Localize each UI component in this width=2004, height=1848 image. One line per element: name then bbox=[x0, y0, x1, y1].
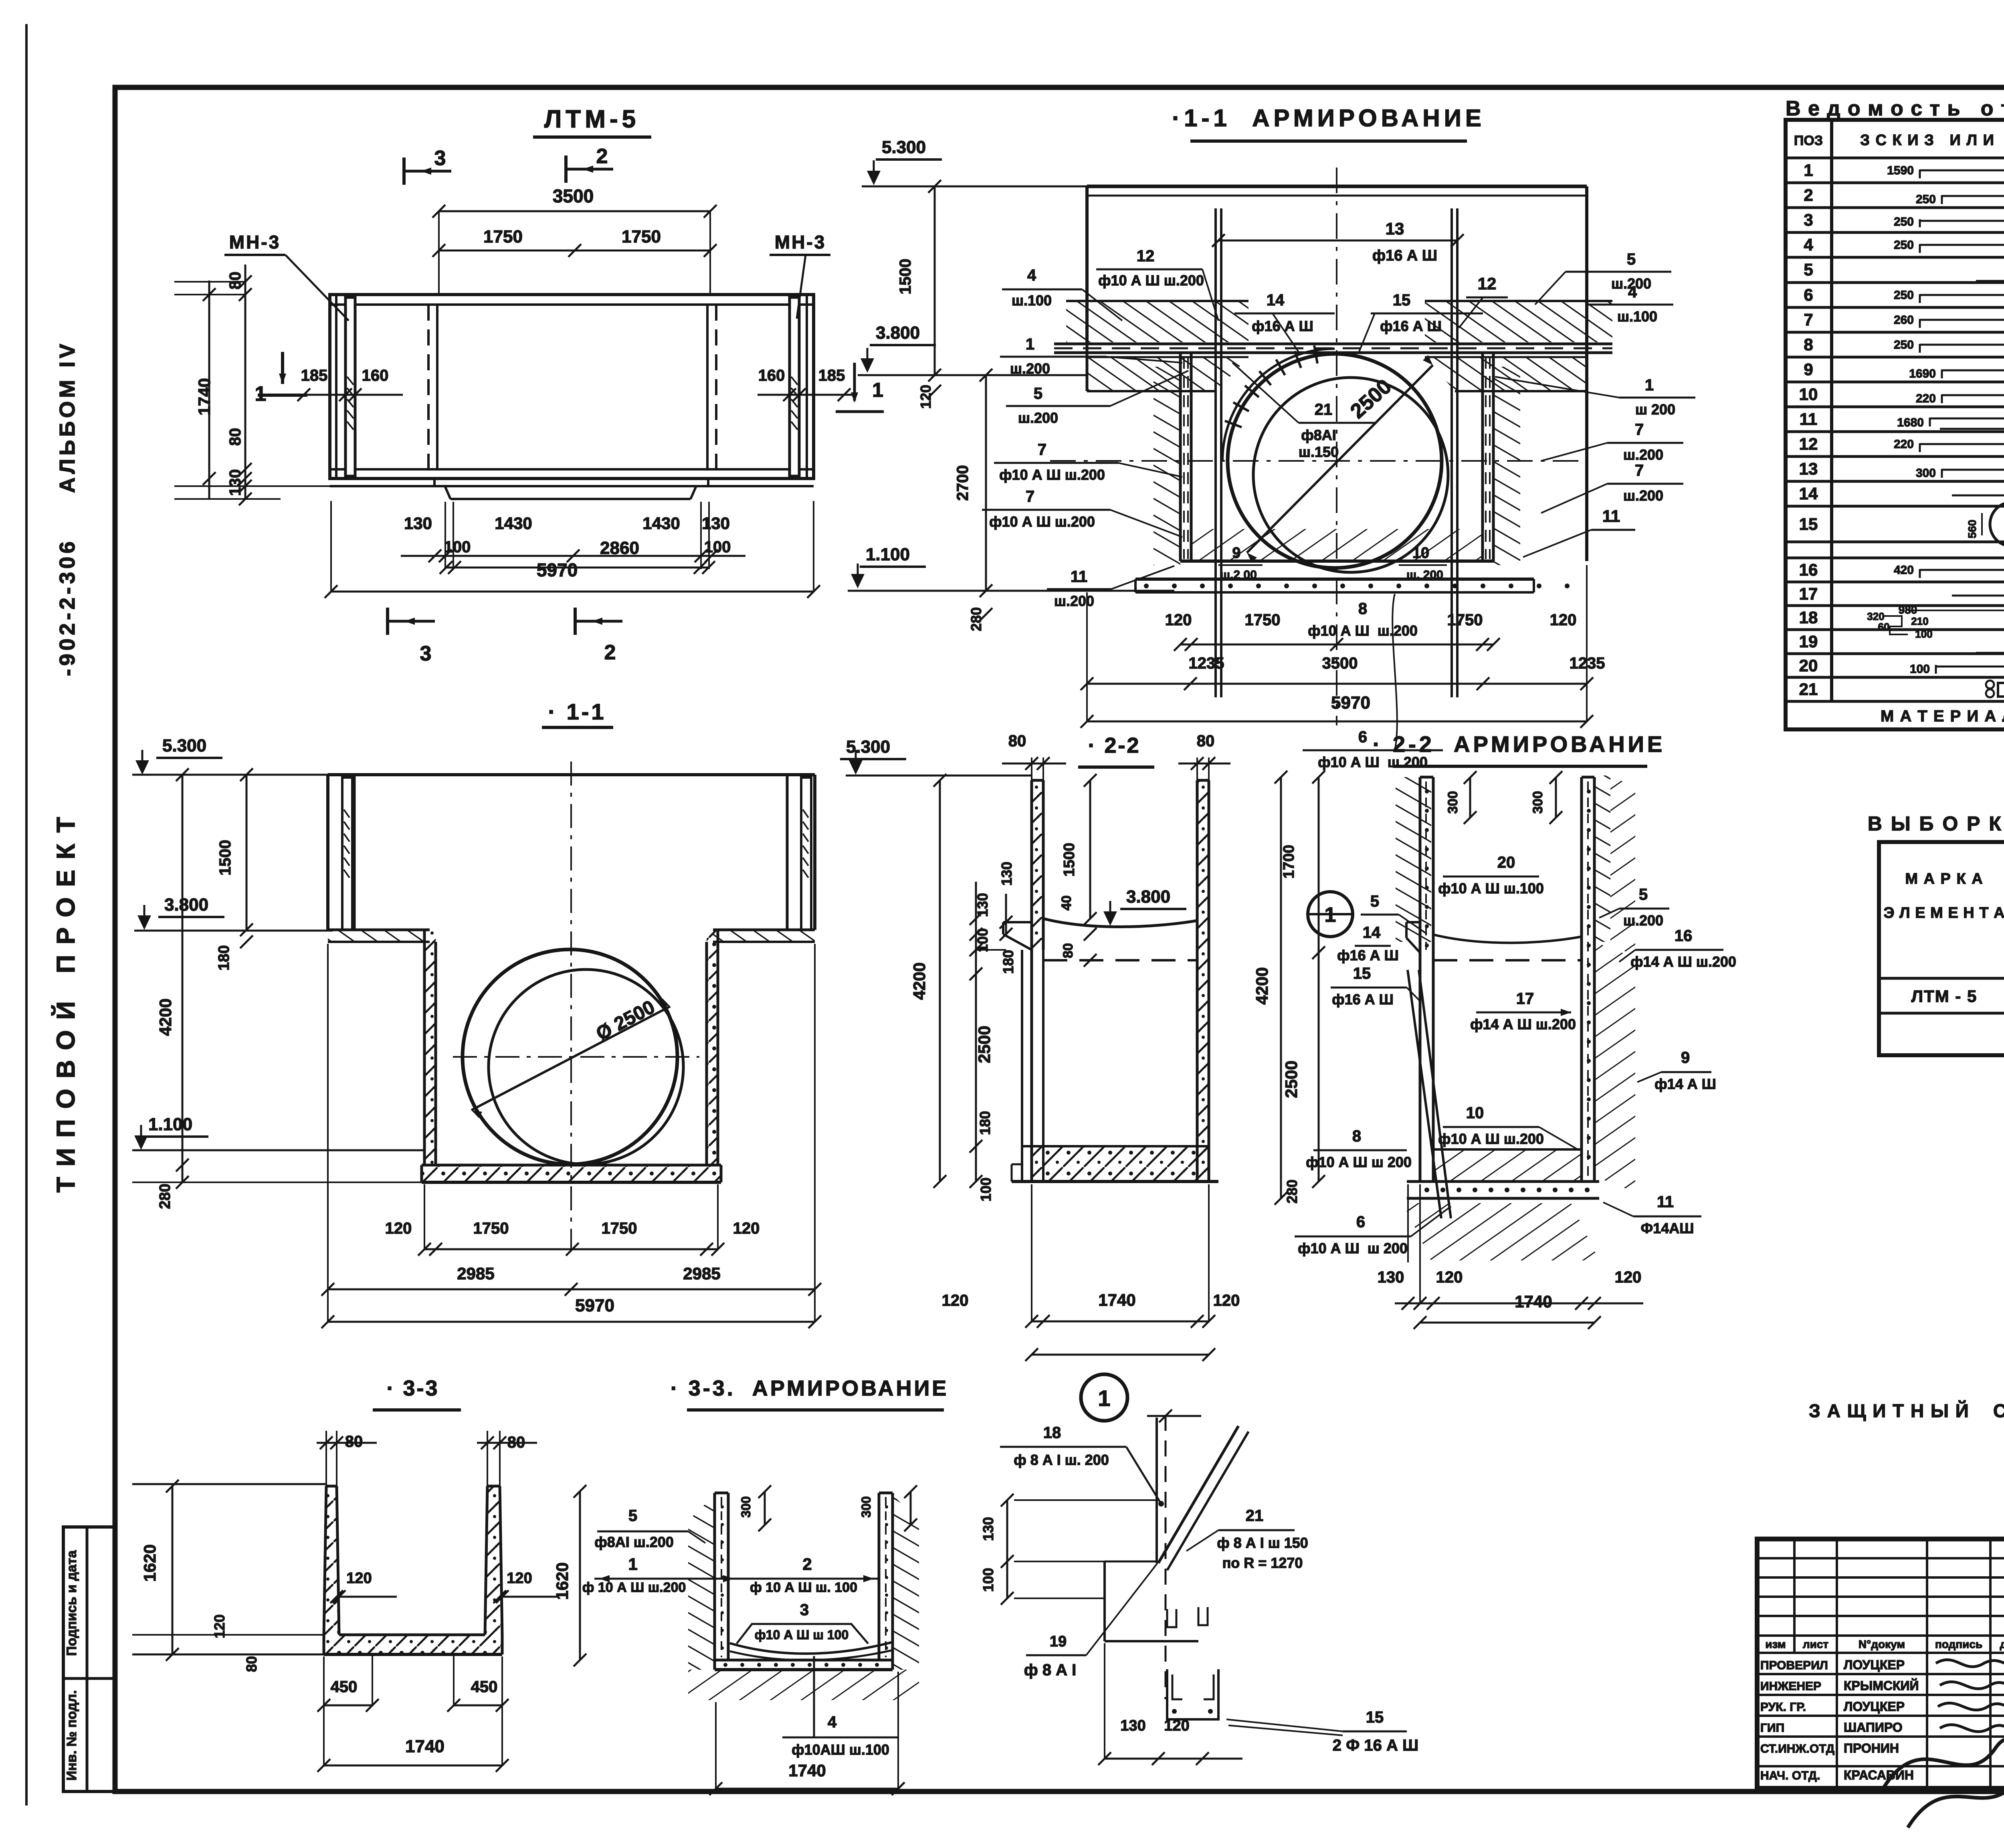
svg-text:Э Л Е М Е Н Т А: Э Л Е М Е Н Т А bbox=[1883, 905, 2004, 921]
svg-text:21: 21 bbox=[1315, 401, 1333, 418]
svg-text:40: 40 bbox=[1059, 895, 1074, 911]
svg-text:300: 300 bbox=[1445, 791, 1461, 814]
svg-text:ш.200: ш.200 bbox=[1623, 912, 1663, 929]
svg-text:120: 120 bbox=[1550, 611, 1577, 629]
svg-text:10: 10 bbox=[1412, 545, 1429, 561]
svg-text:1: 1 bbox=[1645, 376, 1654, 394]
svg-text:2500: 2500 bbox=[1282, 1060, 1301, 1098]
svg-text:2700: 2700 bbox=[954, 465, 972, 501]
svg-text:1: 1 bbox=[872, 379, 883, 401]
svg-text:120: 120 bbox=[917, 385, 934, 409]
svg-text:17: 17 bbox=[1799, 584, 1818, 603]
svg-text:7: 7 bbox=[1026, 488, 1034, 505]
svg-text:16: 16 bbox=[1799, 560, 1818, 579]
svg-text:ПРОВЕРИЛ: ПРОВЕРИЛ bbox=[1760, 1659, 1828, 1672]
svg-text:В е д о м о с т ь о т д е л: В е д о м о с т ь о т д е л ь н ы х с т … bbox=[1786, 97, 2004, 120]
svg-text:8: 8 bbox=[1804, 335, 1813, 354]
svg-text:СТ.ИНЖ.ОТД: СТ.ИНЖ.ОТД bbox=[1760, 1742, 1834, 1755]
svg-text:250: 250 bbox=[1916, 193, 1936, 206]
svg-text:4200: 4200 bbox=[910, 962, 929, 1000]
svg-text:Ф14АШ: Ф14АШ bbox=[1641, 1220, 1694, 1236]
svg-text:250: 250 bbox=[1894, 289, 1914, 302]
svg-text:ЛТМ-5: ЛТМ-5 bbox=[544, 105, 640, 133]
svg-text:ТИПОВОЙ ПРОЕКТ: ТИПОВОЙ ПРОЕКТ bbox=[51, 806, 80, 1192]
svg-text:М А Т Е Р И А Л Ы :: М А Т Е Р И А Л Ы : bbox=[1881, 707, 2004, 725]
svg-text:ф14 А Ш ш.200: ф14 А Ш ш.200 bbox=[1470, 1016, 1576, 1032]
svg-text:1750: 1750 bbox=[602, 1220, 637, 1237]
svg-text:дата: дата bbox=[2000, 1638, 2004, 1650]
svg-text:15: 15 bbox=[1393, 291, 1411, 309]
svg-text:1: 1 bbox=[1026, 335, 1034, 353]
svg-text:1750: 1750 bbox=[1245, 611, 1281, 629]
svg-text:-902-2-306: -902-2-306 bbox=[55, 538, 79, 676]
svg-text:Подпись и дата: Подпись и дата bbox=[64, 1550, 79, 1656]
svg-text:ш.200: ш.200 bbox=[1054, 593, 1094, 609]
svg-text:12: 12 bbox=[1137, 247, 1155, 265]
svg-text:13: 13 bbox=[1386, 219, 1404, 238]
svg-text:14: 14 bbox=[1363, 924, 1381, 941]
svg-text:3.800: 3.800 bbox=[1126, 887, 1170, 907]
svg-text:250: 250 bbox=[1894, 215, 1914, 228]
svg-text:280: 280 bbox=[157, 1184, 174, 1209]
svg-text:1430: 1430 bbox=[642, 514, 680, 533]
svg-text:6: 6 bbox=[1804, 285, 1813, 304]
svg-text:ф8АI: ф8АI bbox=[1301, 427, 1336, 443]
svg-text:3500: 3500 bbox=[1322, 654, 1358, 672]
svg-text:20: 20 bbox=[1799, 656, 1818, 675]
svg-text:120: 120 bbox=[1165, 611, 1192, 629]
svg-text:4200: 4200 bbox=[1252, 967, 1271, 1004]
svg-text:100: 100 bbox=[1910, 662, 1930, 676]
svg-text:1.100: 1.100 bbox=[866, 545, 910, 564]
svg-text:5: 5 bbox=[1804, 260, 1813, 279]
svg-text:120: 120 bbox=[942, 1292, 969, 1309]
svg-text:5: 5 bbox=[628, 1507, 637, 1525]
svg-text:18: 18 bbox=[1043, 1424, 1061, 1442]
svg-text:80: 80 bbox=[1061, 943, 1076, 958]
svg-text:160: 160 bbox=[758, 367, 785, 384]
svg-text:ф16 А Ш: ф16 А Ш bbox=[1380, 318, 1442, 334]
svg-text:13: 13 bbox=[1799, 459, 1818, 478]
svg-text:1700: 1700 bbox=[1281, 845, 1297, 879]
svg-text:80: 80 bbox=[1008, 732, 1026, 750]
svg-text:14: 14 bbox=[1267, 291, 1285, 309]
svg-text:250: 250 bbox=[1894, 338, 1914, 351]
svg-text:МН-3: МН-3 bbox=[229, 232, 281, 252]
svg-text:300: 300 bbox=[739, 1496, 753, 1517]
svg-text:· 1-1: · 1-1 bbox=[548, 699, 606, 724]
svg-text:ш.200: ш.200 bbox=[1018, 410, 1058, 426]
svg-text:180: 180 bbox=[977, 1111, 993, 1135]
svg-text:6: 6 bbox=[1358, 728, 1367, 746]
svg-text:5970: 5970 bbox=[575, 1296, 614, 1315]
svg-text:М А Р К А: М А Р К А bbox=[1905, 870, 1983, 887]
svg-text:· 2-2 АРМИРОВАНИЕ: · 2-2 АРМИРОВАНИЕ bbox=[1373, 731, 1666, 757]
svg-text:1680: 1680 bbox=[1897, 416, 1924, 429]
svg-text:19: 19 bbox=[1050, 1633, 1067, 1650]
svg-text:1620: 1620 bbox=[140, 1544, 159, 1581]
svg-text:100: 100 bbox=[980, 1568, 996, 1592]
svg-text:1590: 1590 bbox=[1887, 164, 1914, 177]
svg-text:ш 200: ш 200 bbox=[1635, 401, 1675, 418]
svg-text:5970: 5970 bbox=[537, 559, 578, 580]
svg-text:185: 185 bbox=[818, 367, 845, 384]
svg-text:80: 80 bbox=[243, 1656, 260, 1672]
svg-text:1500: 1500 bbox=[1061, 843, 1078, 877]
svg-text:РУК. ГР.: РУК. ГР. bbox=[1760, 1701, 1806, 1714]
svg-text:ИНЖЕНЕР: ИНЖЕНЕР bbox=[1760, 1680, 1821, 1693]
svg-text:15: 15 bbox=[1366, 1709, 1384, 1726]
svg-text:3.800: 3.800 bbox=[164, 895, 208, 915]
svg-text:ф 8 А I ш. 200: ф 8 А I ш. 200 bbox=[1014, 1452, 1109, 1468]
svg-text:1740: 1740 bbox=[1098, 1291, 1135, 1309]
svg-text:3.800: 3.800 bbox=[876, 323, 920, 343]
svg-text:3500: 3500 bbox=[553, 186, 594, 206]
svg-text:ф10 А Ш ш.100: ф10 А Ш ш.100 bbox=[1438, 880, 1544, 897]
svg-text:5970: 5970 bbox=[1331, 693, 1370, 713]
svg-text:5: 5 bbox=[1639, 886, 1648, 903]
svg-text:60: 60 bbox=[1878, 621, 1890, 633]
svg-text:1620: 1620 bbox=[553, 1562, 572, 1600]
svg-text:ф10 А Ш ш.200: ф10 А Ш ш.200 bbox=[1308, 622, 1418, 639]
svg-text:8: 8 bbox=[1358, 600, 1367, 618]
svg-text:1740: 1740 bbox=[195, 378, 214, 415]
svg-text:100: 100 bbox=[1915, 628, 1932, 640]
svg-text:21: 21 bbox=[1246, 1507, 1264, 1525]
svg-text:ГИП: ГИП bbox=[1760, 1721, 1784, 1735]
svg-text:450: 450 bbox=[331, 1678, 358, 1696]
svg-text:560: 560 bbox=[1966, 520, 1978, 539]
svg-text:11: 11 bbox=[1800, 410, 1817, 428]
svg-text:ф10 А Ш ш.200: ф10 А Ш ш.200 bbox=[999, 467, 1105, 483]
svg-text:ф16 А Ш: ф16 А Ш bbox=[1337, 947, 1399, 963]
svg-text:ф10 А Ш ш 200: ф10 А Ш ш 200 bbox=[1298, 1240, 1408, 1256]
svg-text:3: 3 bbox=[1804, 210, 1813, 229]
svg-text:7: 7 bbox=[1804, 310, 1813, 329]
svg-text:220: 220 bbox=[1894, 438, 1914, 451]
svg-text:1: 1 bbox=[255, 382, 267, 406]
svg-text:5: 5 bbox=[1627, 250, 1636, 268]
svg-text:N°докум: N°докум bbox=[1859, 1638, 1905, 1650]
svg-text:5.300: 5.300 bbox=[846, 737, 890, 757]
svg-text:НАЧ. ОТД.: НАЧ. ОТД. bbox=[1760, 1769, 1820, 1782]
svg-text:120: 120 bbox=[1615, 1268, 1642, 1286]
svg-text:4200: 4200 bbox=[156, 998, 175, 1036]
svg-text:ф16 А Ш: ф16 А Ш bbox=[1252, 318, 1313, 334]
svg-text:21: 21 bbox=[1799, 680, 1818, 699]
svg-text:120: 120 bbox=[1213, 1292, 1240, 1309]
svg-text:130: 130 bbox=[1120, 1717, 1145, 1734]
svg-text:2: 2 bbox=[596, 145, 608, 168]
svg-text:ф10 А Ш ш 200: ф10 А Ш ш 200 bbox=[1306, 1154, 1412, 1170]
svg-text:3: 3 bbox=[420, 642, 432, 665]
svg-text:ПРОНИН: ПРОНИН bbox=[1844, 1741, 1899, 1755]
svg-text:120: 120 bbox=[346, 1570, 372, 1587]
svg-text:ф10 А Ш ш.200: ф10 А Ш ш.200 bbox=[989, 513, 1095, 530]
svg-text:420: 420 bbox=[1894, 563, 1914, 577]
svg-text:210: 210 bbox=[1911, 615, 1928, 627]
svg-text:КРАСАВИН: КРАСАВИН bbox=[1844, 1768, 1914, 1782]
svg-text:1750: 1750 bbox=[1447, 611, 1483, 629]
svg-text:ш.200: ш.200 bbox=[1623, 487, 1663, 504]
svg-text:4: 4 bbox=[1628, 283, 1637, 301]
svg-text:ЛОУЦКЕР: ЛОУЦКЕР bbox=[1844, 1658, 1905, 1672]
svg-text:ф16 А Ш: ф16 А Ш bbox=[1332, 991, 1394, 1008]
svg-text:1: 1 bbox=[1804, 161, 1813, 180]
svg-text:7: 7 bbox=[1635, 462, 1644, 479]
svg-text:100: 100 bbox=[978, 1177, 994, 1202]
svg-text:18: 18 bbox=[1799, 608, 1818, 627]
svg-text:5: 5 bbox=[1034, 385, 1042, 402]
svg-text:16: 16 bbox=[1675, 927, 1693, 945]
svg-text:ЛОУЦКЕР: ЛОУЦКЕР bbox=[1844, 1699, 1905, 1714]
svg-text:2985: 2985 bbox=[683, 1264, 720, 1283]
svg-text:130: 130 bbox=[998, 862, 1015, 886]
svg-text:185: 185 bbox=[301, 367, 328, 384]
svg-text:11: 11 bbox=[1602, 507, 1620, 525]
svg-text:1235: 1235 bbox=[1189, 654, 1224, 672]
svg-text:ф8АI ш.200: ф8АI ш.200 bbox=[594, 1534, 674, 1550]
svg-text:2985: 2985 bbox=[457, 1264, 494, 1283]
svg-text:1: 1 bbox=[1098, 1385, 1110, 1411]
svg-text:З С К И З И Л И С Е Ч Е Н: З С К И З И Л И С Е Ч Е Н И Е bbox=[1860, 132, 2004, 149]
svg-text:130: 130 bbox=[404, 514, 432, 533]
svg-text:120: 120 bbox=[507, 1570, 532, 1587]
svg-text:5.300: 5.300 bbox=[162, 736, 206, 755]
svg-text:1740: 1740 bbox=[788, 1761, 826, 1780]
svg-text:2: 2 bbox=[1804, 186, 1813, 204]
svg-text:130: 130 bbox=[1378, 1268, 1404, 1286]
svg-text:подпись: подпись bbox=[1935, 1638, 1982, 1650]
svg-text:8: 8 bbox=[1352, 1127, 1361, 1145]
svg-text:ф16 А Ш: ф16 А Ш bbox=[1372, 247, 1437, 264]
svg-text:7: 7 bbox=[1038, 441, 1046, 458]
svg-text:80: 80 bbox=[345, 1433, 363, 1450]
svg-text:· 3-3: · 3-3 bbox=[386, 1376, 439, 1400]
svg-text:120: 120 bbox=[1164, 1717, 1189, 1734]
svg-text:180: 180 bbox=[1000, 950, 1016, 974]
svg-text:10: 10 bbox=[1466, 1104, 1484, 1122]
svg-text:ш.200: ш.200 bbox=[1623, 446, 1663, 463]
svg-text:120: 120 bbox=[211, 1614, 228, 1638]
svg-text:10: 10 bbox=[1799, 385, 1818, 404]
svg-text:300: 300 bbox=[859, 1496, 873, 1517]
svg-text:ПОЗ: ПОЗ bbox=[1794, 133, 1823, 148]
svg-text:120: 120 bbox=[733, 1220, 760, 1237]
svg-text:2500: 2500 bbox=[975, 1026, 994, 1063]
svg-text:11: 11 bbox=[1657, 1193, 1674, 1211]
svg-text:7: 7 bbox=[1635, 421, 1644, 438]
svg-text:15: 15 bbox=[1799, 515, 1818, 533]
svg-text:80: 80 bbox=[226, 428, 244, 446]
svg-text:1740: 1740 bbox=[405, 1737, 444, 1756]
svg-text:100: 100 bbox=[444, 538, 471, 556]
svg-text:Инв. № подл.: Инв. № подл. bbox=[64, 1690, 79, 1781]
svg-text:15: 15 bbox=[1353, 965, 1371, 982]
svg-text:1750: 1750 bbox=[473, 1220, 509, 1237]
svg-text:260: 260 bbox=[1894, 313, 1914, 327]
svg-text:1690: 1690 bbox=[1909, 367, 1936, 380]
svg-text:лист: лист bbox=[1803, 1638, 1828, 1650]
svg-text:ш.150: ш.150 bbox=[1299, 444, 1339, 460]
svg-text:ф 10 А Ш ш.200: ф 10 А Ш ш.200 bbox=[582, 1580, 686, 1595]
svg-text:4: 4 bbox=[1804, 235, 1813, 254]
svg-text:11: 11 bbox=[1071, 568, 1087, 586]
svg-text:80: 80 bbox=[1197, 732, 1215, 750]
svg-text:ф10 А Ш ш 100: ф10 А Ш ш 100 bbox=[755, 1628, 848, 1642]
svg-text:5.300: 5.300 bbox=[882, 137, 926, 157]
svg-text:ф14 А Ш: ф14 А Ш bbox=[1655, 1076, 1716, 1092]
svg-text:ш.100: ш.100 bbox=[1617, 308, 1657, 325]
svg-text:ф 10 А Ш ш. 100: ф 10 А Ш ш. 100 bbox=[750, 1580, 857, 1595]
svg-text:2: 2 bbox=[604, 641, 616, 664]
svg-text:1430: 1430 bbox=[495, 514, 532, 533]
svg-text:ф10 А Ш ш.200: ф10 А Ш ш.200 bbox=[1098, 272, 1204, 289]
svg-text:ш.2 00: ш.2 00 bbox=[1220, 568, 1257, 582]
svg-text:450: 450 bbox=[471, 1678, 498, 1696]
svg-text:3: 3 bbox=[434, 147, 446, 170]
svg-text:1500: 1500 bbox=[216, 840, 234, 876]
svg-text:120: 120 bbox=[385, 1220, 412, 1237]
svg-text:14: 14 bbox=[1799, 484, 1818, 503]
svg-text:1740: 1740 bbox=[1515, 1292, 1552, 1311]
svg-text:ф 8 А I ш 150: ф 8 А I ш 150 bbox=[1217, 1535, 1308, 1551]
svg-text:1500: 1500 bbox=[897, 259, 914, 295]
svg-text:· 3-3. АРМИРОВАНИЕ: · 3-3. АРМИРОВАНИЕ bbox=[671, 1376, 949, 1400]
svg-text:5: 5 bbox=[1370, 893, 1379, 910]
svg-text:1750: 1750 bbox=[622, 227, 661, 246]
svg-text:по R = 1270: по R = 1270 bbox=[1222, 1555, 1303, 1571]
svg-text:2: 2 bbox=[802, 1555, 812, 1573]
svg-text:17: 17 bbox=[1516, 990, 1534, 1008]
svg-text:12: 12 bbox=[1478, 274, 1497, 293]
svg-text:300: 300 bbox=[1916, 467, 1936, 480]
svg-text:ф 8 А I: ф 8 А I bbox=[1024, 1661, 1077, 1679]
svg-text:2 Ф 16 А Ш: 2 Ф 16 А Ш bbox=[1333, 1737, 1418, 1754]
svg-text:1: 1 bbox=[628, 1555, 637, 1573]
svg-text:120: 120 bbox=[1436, 1268, 1463, 1286]
svg-text:9: 9 bbox=[1232, 545, 1240, 561]
svg-text:ш. 200: ш. 200 bbox=[1406, 568, 1443, 582]
svg-text:ШАПИРО: ШАПИРО bbox=[1844, 1720, 1903, 1735]
svg-text:300: 300 bbox=[1530, 791, 1545, 814]
svg-text:250: 250 bbox=[1894, 238, 1914, 252]
svg-text:1750: 1750 bbox=[483, 227, 523, 246]
svg-text:9: 9 bbox=[1681, 1049, 1690, 1066]
svg-text:·1-1 АРМИРОВАНИЕ: ·1-1 АРМИРОВАНИЕ bbox=[1172, 105, 1485, 131]
svg-text:изм: изм bbox=[1765, 1638, 1786, 1650]
svg-text:ф14 А Ш ш.200: ф14 А Ш ш.200 bbox=[1630, 953, 1736, 970]
svg-text:19: 19 bbox=[1799, 632, 1818, 651]
svg-text:130: 130 bbox=[702, 514, 730, 533]
svg-text:220: 220 bbox=[1916, 392, 1936, 405]
svg-text:ш.100: ш.100 bbox=[1012, 292, 1052, 309]
svg-text:АЛЬБОМ IV: АЛЬБОМ IV bbox=[55, 341, 79, 493]
svg-text:100: 100 bbox=[704, 538, 731, 556]
svg-text:4: 4 bbox=[1027, 267, 1036, 284]
svg-text:180: 180 bbox=[216, 945, 232, 970]
svg-text:4: 4 bbox=[828, 1713, 837, 1731]
svg-text:ф10АШ ш.100: ф10АШ ш.100 bbox=[792, 1741, 889, 1758]
svg-text:6: 6 bbox=[1356, 1213, 1365, 1231]
svg-text:9: 9 bbox=[1804, 360, 1813, 379]
svg-text:12: 12 bbox=[1799, 434, 1818, 453]
svg-text:МН-3: МН-3 bbox=[775, 232, 826, 252]
svg-text:· 2-2: · 2-2 bbox=[1088, 733, 1140, 757]
svg-text:ф10 А Ш ш.200: ф10 А Ш ш.200 bbox=[1438, 1131, 1544, 1147]
svg-text:2860: 2860 bbox=[600, 538, 639, 558]
svg-text:130: 130 bbox=[980, 1517, 996, 1541]
svg-text:ЛТМ - 5: ЛТМ - 5 bbox=[1911, 987, 1978, 1006]
svg-text:1.100: 1.100 bbox=[148, 1115, 192, 1134]
svg-text:КРЫМСКИЙ: КРЫМСКИЙ bbox=[1844, 1678, 1919, 1693]
svg-text:20: 20 bbox=[1497, 854, 1515, 871]
svg-text:160: 160 bbox=[362, 367, 389, 384]
svg-text:З А Щ И Т Н Ы Й С Л О Й: З А Щ И Т Н Ы Й С Л О Й Б Е Т О Н А — 2 … bbox=[1809, 1400, 2004, 1421]
svg-text:3: 3 bbox=[800, 1601, 809, 1619]
svg-text:280: 280 bbox=[1284, 1179, 1300, 1204]
svg-text:В Ы Б О Р К А С Т А Л И Н: В Ы Б О Р К А С Т А Л И Н А О Д И Н Э Л … bbox=[1868, 812, 2004, 835]
